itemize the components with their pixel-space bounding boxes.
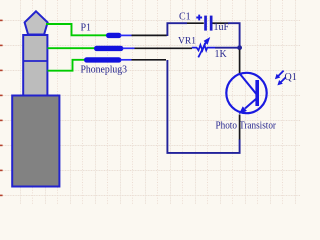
svg-text:1K: 1K [215, 49, 228, 60]
wire C1 left pin [187, 22, 204, 24]
wire junction down to Q1 collector [239, 50, 241, 74]
wire Q1 emitter pin down [239, 115, 241, 141]
wire bottom return loop [167, 60, 239, 153]
svg-text:Photo Transistor: Photo Transistor [216, 120, 277, 131]
connector P1 pin 1 [106, 33, 167, 38]
connector P1 pin 2 [94, 46, 192, 51]
Q1 light arrow 2 [277, 77, 285, 85]
transistor Q1 photo transistor [226, 73, 266, 114]
connector P1 pin 3 [84, 57, 166, 62]
junction dot [237, 45, 242, 50]
svg-text:P1: P1 [81, 23, 92, 34]
svg-text:VR1: VR1 [178, 37, 196, 47]
wire ring to pin2 [48, 47, 96, 49]
svg-text:Phoneplug3: Phoneplug3 [81, 65, 128, 76]
wire tip to P1 pin1 [46, 24, 107, 35]
svg-text:Q1: Q1 [285, 72, 297, 83]
wire to junction [228, 23, 240, 48]
wire pin1 up to C1 rail [167, 23, 187, 36]
phone plug body (sleeve) [12, 96, 59, 187]
svg-text:C1: C1 [179, 12, 191, 23]
wire VR1 to junction [215, 47, 240, 49]
wire C1 right pin [213, 22, 229, 24]
Q1 light arrow 1 [275, 71, 284, 80]
wire sleeve to pin3 [48, 60, 86, 71]
resistor VR1 (variable) [192, 37, 215, 57]
connector J phone plug tip (pentagon) [25, 11, 48, 34]
svg-text:1uF: 1uF [214, 22, 230, 33]
phone plug neck (ring section) [23, 35, 47, 96]
capacitor C1 [196, 15, 212, 31]
